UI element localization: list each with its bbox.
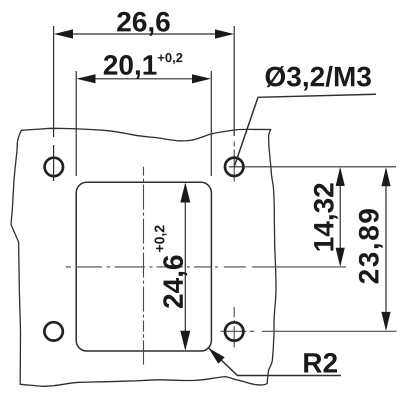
centerline horizontal through cutout	[66, 266, 246, 268]
mounting hole top-left	[45, 158, 63, 176]
centerline horizontal extension to 14,32 dimension	[252, 266, 346, 268]
mounting hole bottom-left	[44, 322, 62, 340]
dimension text 24,6 +0,2 (rotated)	[155, 225, 188, 308]
plate outline (broken-out panel edge)	[11, 128, 276, 386]
mounting hole top-right	[225, 158, 243, 176]
extension line from top-right hole (right side dims)	[229, 166, 396, 168]
radius text R2	[304, 353, 337, 373]
extension line left of dim 26,6	[53, 26, 55, 137]
dimension line 23,89	[381, 167, 390, 331]
R2 leader arrowhead	[209, 348, 225, 364]
dimension text 14,32 (rotated)	[314, 183, 338, 250]
hole callout text Ø3,2/M3	[266, 66, 371, 91]
mounting hole bottom-right	[225, 322, 243, 340]
dimension line 24,6 (inside cutout)	[180, 183, 190, 351]
extension line right of dim 20,1	[210, 71, 212, 176]
radius callout leader R2 with arrowhead	[209, 348, 342, 376]
centerline dot right of bottom-right hole	[250, 330, 255, 332]
extension line left of dim 20,1	[75, 71, 77, 176]
centerline vertical of top-right hole (dash)	[233, 142, 235, 147]
centerline vertical through cutout	[143, 167, 145, 332]
dimension line 26,6	[54, 29, 234, 38]
dimension line 14,32	[336, 167, 345, 267]
centerline horizontal of bottom-right hole	[221, 330, 247, 332]
centerline vertical of top-left hole	[53, 145, 55, 181]
dimension text 20,1 +0,2	[104, 53, 183, 79]
centerline vertical of top-right hole (through hole)	[233, 150, 235, 182]
centerline vertical through cutout (lower tail)	[143, 334, 145, 364]
extension line right of dim 26,6	[233, 26, 235, 136]
centerline extension to 23,89 dimension	[262, 330, 397, 332]
dimension text 23,89 (rotated)	[359, 209, 383, 283]
cutout rounded square 20,1 x 24,6 R2	[76, 182, 211, 351]
hole callout leader line	[234, 94, 376, 167]
dimension text 26,6	[117, 12, 170, 36]
centerline vertical of bottom-right hole	[233, 307, 235, 348]
dimension line 20,1	[77, 74, 212, 83]
